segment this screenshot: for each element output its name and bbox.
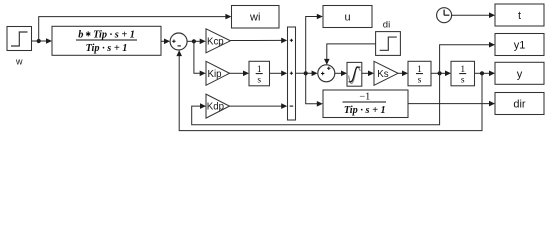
gain Kcp: [206, 29, 230, 53]
transfer function TF2 -1/(Tip.s+1): [323, 90, 408, 118]
svg-text:b: b: [78, 30, 83, 41]
wire Kcp to sum rect port1: [230, 38, 287, 44]
svg-text:s: s: [257, 76, 261, 86]
wire Ks to integrator 1: [398, 71, 408, 77]
wire junction down around to Kdp (velocity feedback): [192, 73, 440, 124]
svg-text:−1: −1: [359, 92, 370, 103]
svg-text:dir: dir: [513, 99, 526, 111]
scope block y1: [495, 34, 544, 56]
gain Ks: [374, 61, 398, 85]
wire di to sum2 top: [324, 44, 376, 65]
svg-text:Tip · s + 1: Tip · s + 1: [86, 43, 128, 54]
wire TF2 to dir: [408, 101, 495, 107]
gain Kdp: [206, 94, 230, 118]
svg-text:Kdp: Kdp: [207, 102, 224, 113]
transfer function TF1 b*Tip.s+1/Tip.s+1: [52, 26, 161, 55]
svg-text:u: u: [344, 12, 350, 24]
svg-text:y: y: [517, 68, 523, 80]
svg-text:s: s: [461, 76, 465, 86]
wire junction up to u scope: [306, 14, 323, 74]
svg-text:Tip · s + 1: Tip · s + 1: [93, 30, 135, 41]
svg-text:Kcp: Kcp: [207, 36, 224, 47]
wire clock to t: [451, 12, 495, 18]
wire TF1 to sum1: [161, 39, 170, 45]
svg-text:t: t: [518, 10, 521, 22]
svg-text:Tip · s + 1: Tip · s + 1: [344, 105, 386, 116]
scope block t: [495, 4, 544, 26]
wire sum rect to sum2 with junction: [296, 71, 318, 77]
svg-text:s: s: [418, 76, 422, 86]
scope block u: [323, 6, 372, 28]
svg-text:y1: y1: [514, 40, 526, 52]
gain Kip: [206, 61, 230, 85]
scope block y: [495, 62, 544, 84]
integrator 1/s second (position): [451, 61, 475, 86]
saturation block: [347, 62, 362, 86]
svg-text:Kip: Kip: [208, 69, 222, 80]
svg-text:wi: wi: [249, 12, 260, 24]
svg-text:di: di: [383, 19, 390, 30]
wire integrator to sum rect port2: [270, 71, 288, 77]
wire integrator1 to integrator2 with junction: [431, 71, 451, 77]
wire saturation to Ks: [362, 71, 374, 77]
wire position feedback to sum1 bottom: [176, 50, 482, 131]
wire Kdp to sum rect port3: [230, 103, 288, 109]
step source di: [376, 32, 401, 56]
svg-text:Ks: Ks: [377, 69, 388, 80]
integrator 1/s (I path): [249, 61, 270, 86]
wire junction up to y1: [440, 42, 495, 73]
scope block dir: [495, 93, 544, 115]
clock: [437, 8, 452, 23]
svg-text:w: w: [15, 56, 23, 66]
sum block rectangular (+,+,-): [288, 27, 296, 120]
wire Kip to integrator: [230, 71, 250, 77]
wire sum1 to Kcp with junction node: [187, 39, 206, 45]
wire junction down to Kip: [194, 41, 206, 76]
wire junction up to wi: [39, 14, 232, 41]
sum junction 1 (+/-): [170, 33, 187, 50]
sum junction 2 (+ +): [318, 65, 335, 82]
integrator 1/s first (velocity): [408, 61, 431, 86]
wire integrator2 to y with junction: [475, 71, 496, 77]
scope block wi: [232, 6, 280, 29]
wire sum2 to saturation: [335, 71, 347, 77]
wire step to TF1 with junction: [32, 38, 53, 44]
step source w: [7, 27, 32, 51]
wire junction down to TF2: [306, 73, 323, 106]
